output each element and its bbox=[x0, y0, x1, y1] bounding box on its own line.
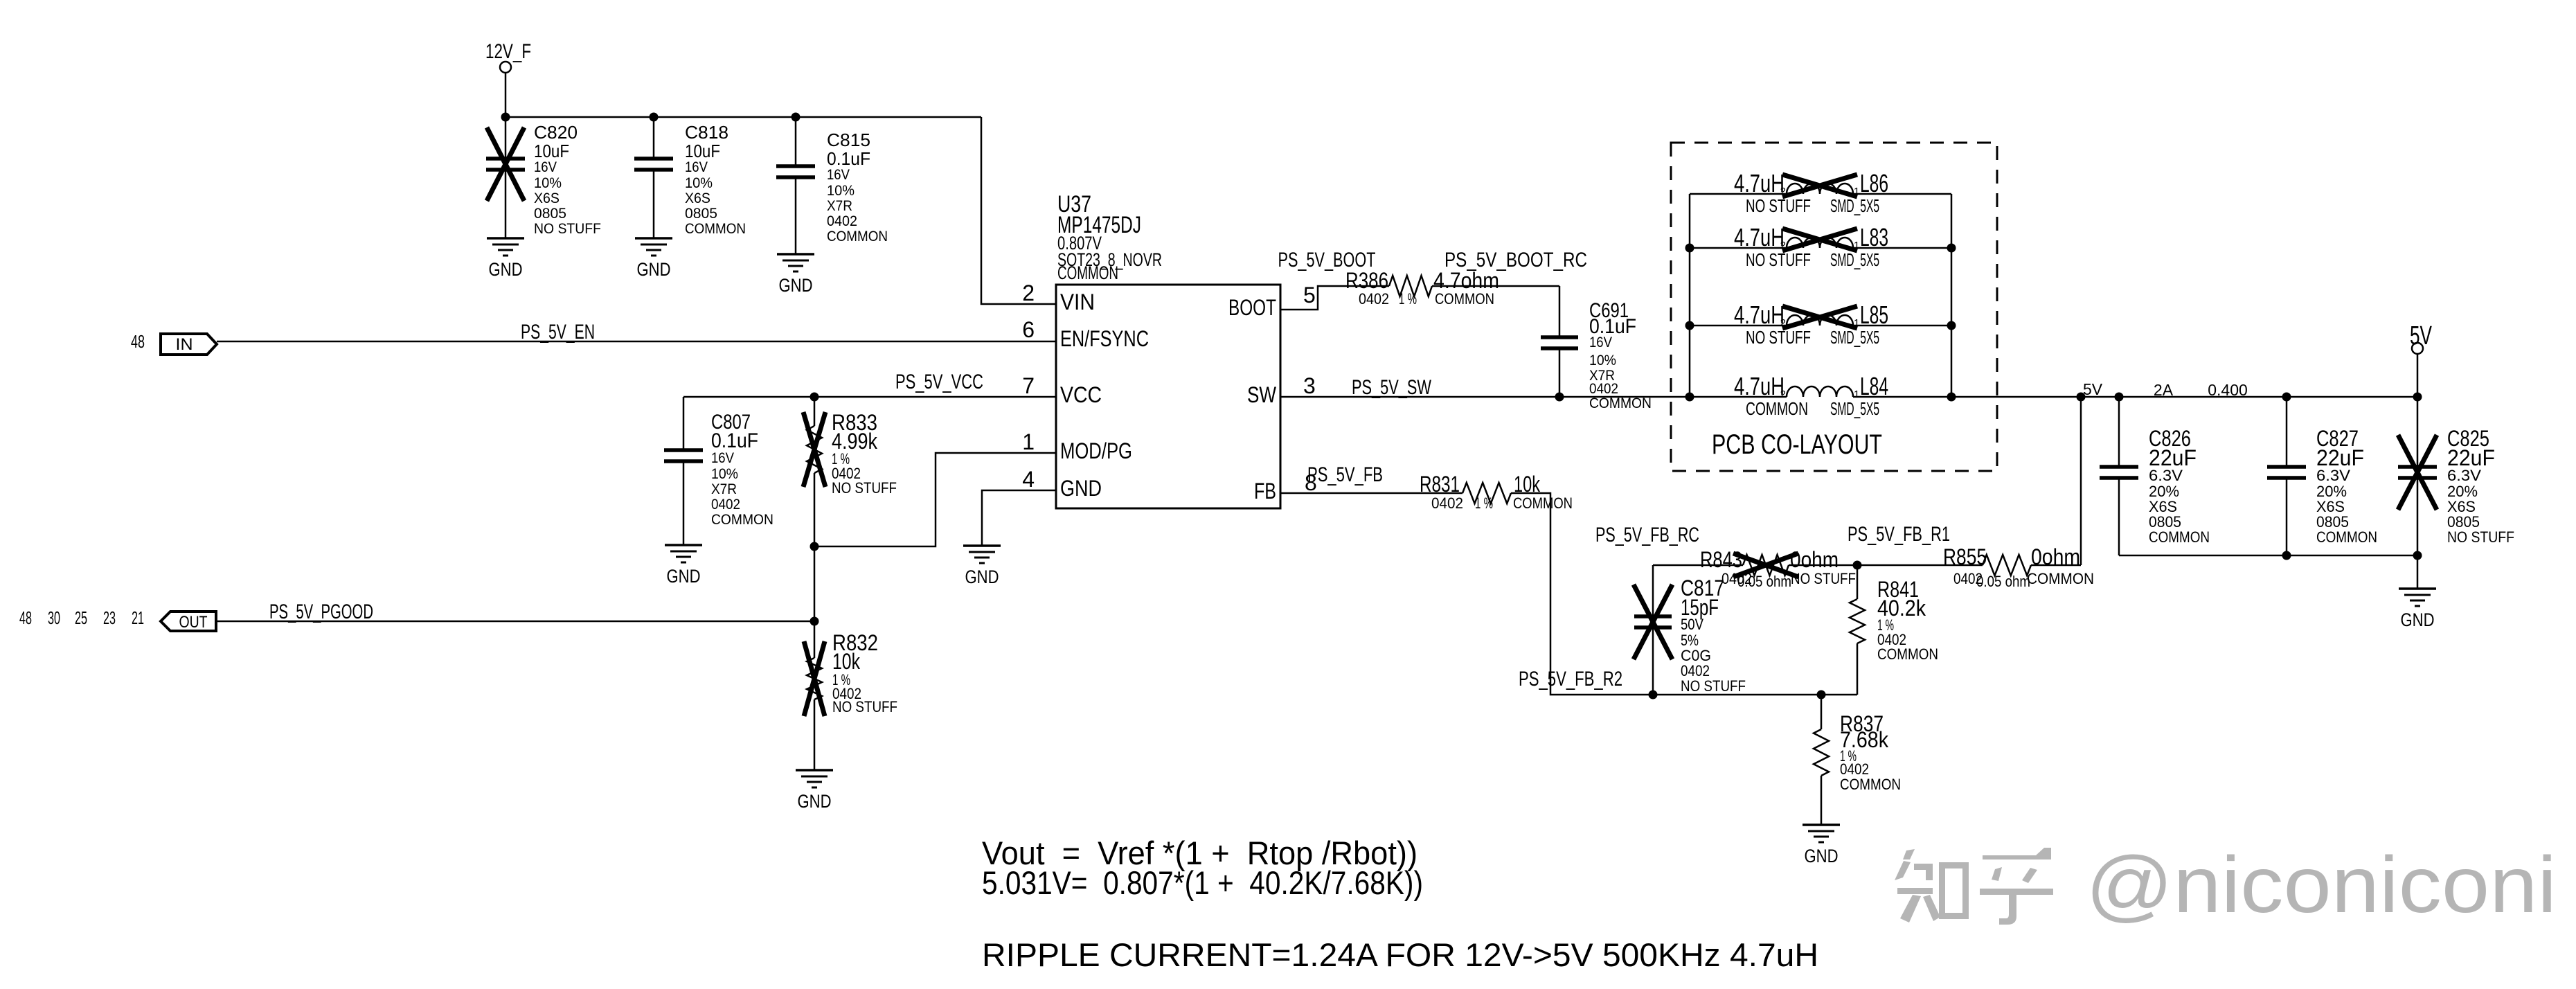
svg-text:X7R: X7R bbox=[711, 481, 737, 497]
svg-text:16V: 16V bbox=[685, 159, 708, 175]
svg-text:FB: FB bbox=[1254, 479, 1276, 504]
svg-text:GND: GND bbox=[2401, 609, 2435, 630]
pin 1 MOD/PG bbox=[1022, 429, 1132, 463]
svg-text:2A: 2A bbox=[2154, 381, 2174, 399]
svg-text:NO STUFF: NO STUFF bbox=[534, 221, 601, 237]
svg-text:6: 6 bbox=[1022, 317, 1035, 342]
inductor L83 4.7uH (NO STUFF) bbox=[1690, 223, 1951, 270]
ground bbox=[1803, 825, 1840, 866]
svg-text:0402: 0402 bbox=[1431, 494, 1463, 512]
pin 8 FB bbox=[1254, 470, 1317, 504]
resistor R837 7.68k bbox=[1814, 695, 1901, 825]
net 12V_F power terminal bbox=[485, 40, 531, 117]
svg-text:COMMON: COMMON bbox=[1435, 290, 1494, 308]
svg-text:3: 3 bbox=[1303, 373, 1316, 398]
svg-text:X6S: X6S bbox=[534, 190, 560, 206]
svg-text:10uF: 10uF bbox=[534, 141, 569, 161]
node junction R833 bottom bbox=[810, 542, 819, 551]
capacitor C820 10uF (NO STUFF) bbox=[486, 117, 601, 238]
port IN (pin 48) PS_5V_EN bbox=[131, 331, 217, 355]
wire riser to R855 bbox=[2080, 397, 2082, 565]
svg-text:6.3V: 6.3V bbox=[2149, 467, 2183, 484]
capacitor C817 15pF (NO STUFF) bbox=[1634, 565, 1746, 695]
inductor L85 4.7uH (NO STUFF) bbox=[1690, 301, 1951, 348]
pin 5 BOOT bbox=[1228, 283, 1316, 320]
wire PS_5V_VCC bbox=[683, 396, 1056, 398]
wire rail to VIN bbox=[981, 117, 1056, 304]
svg-text:L85: L85 bbox=[1860, 301, 1888, 329]
wire FB_R1 node bbox=[1789, 564, 1983, 567]
svg-text:GND: GND bbox=[1060, 476, 1102, 501]
svg-text:7: 7 bbox=[1022, 373, 1035, 398]
svg-text:10%: 10% bbox=[1589, 353, 1616, 368]
wire FB_R2 row right bbox=[1653, 694, 1857, 696]
svg-text:10%: 10% bbox=[534, 175, 562, 191]
svg-text:VIN: VIN bbox=[1060, 289, 1095, 314]
svg-text:COMMON: COMMON bbox=[1877, 645, 1938, 663]
wire PS_5V_PGOOD bbox=[216, 621, 814, 623]
svg-text:COMMON: COMMON bbox=[2027, 570, 2094, 587]
port OUT pins 48 30 25 23 21 PS_5V_PGOOD bbox=[19, 607, 216, 632]
svg-text:10%: 10% bbox=[711, 466, 738, 482]
node junctions right rail bbox=[1947, 244, 1956, 253]
svg-text:R843: R843 bbox=[1700, 547, 1742, 572]
svg-text:5: 5 bbox=[1303, 283, 1316, 308]
svg-text:10%: 10% bbox=[827, 183, 855, 199]
svg-text:L86: L86 bbox=[1860, 169, 1888, 197]
svg-text:SMD_5X5: SMD_5X5 bbox=[1830, 398, 1879, 419]
node junction FB_R1 bbox=[1853, 561, 1862, 570]
svg-text:L83: L83 bbox=[1860, 223, 1888, 251]
ground bbox=[665, 545, 702, 587]
wire top input rail bbox=[506, 116, 981, 118]
wire inductor right rail bbox=[1951, 194, 1953, 397]
node junction C827 bbox=[2282, 393, 2291, 402]
resistor R841 40.2k bbox=[1850, 565, 1938, 695]
svg-text:PS_5V_FB: PS_5V_FB bbox=[1307, 463, 1383, 486]
node junction C827 gnd bbox=[2282, 551, 2291, 560]
svg-text:L84: L84 bbox=[1860, 372, 1888, 400]
svg-text:COMMON: COMMON bbox=[827, 229, 888, 244]
svg-text:C820: C820 bbox=[534, 122, 578, 143]
wire PS_5V_SW bbox=[1280, 396, 1690, 398]
capacitor C691 0.1uF bbox=[1541, 286, 1652, 411]
svg-text:VCC: VCC bbox=[1060, 382, 1102, 407]
svg-text:30: 30 bbox=[48, 607, 60, 628]
svg-text:48: 48 bbox=[131, 331, 145, 352]
svg-text:GND: GND bbox=[798, 791, 832, 812]
svg-text:6.3V: 6.3V bbox=[2316, 467, 2350, 484]
svg-text:0.05 ohm: 0.05 ohm bbox=[1976, 573, 2030, 590]
node junction C820 bbox=[501, 113, 510, 122]
svg-text:NO STUFF: NO STUFF bbox=[2447, 528, 2514, 546]
svg-text:0402: 0402 bbox=[827, 213, 857, 229]
svg-text:COMMON: COMMON bbox=[1746, 398, 1808, 419]
watermark zhihu @niconiconi bbox=[1895, 848, 2053, 925]
svg-text:SMD_5X5: SMD_5X5 bbox=[1830, 327, 1879, 348]
svg-text:PS_5V_FB_RC: PS_5V_FB_RC bbox=[1595, 524, 1699, 546]
wire R831 to FB_R2 row bbox=[1511, 493, 1653, 695]
pin 2 VIN bbox=[1022, 280, 1095, 314]
ground bbox=[2399, 589, 2436, 630]
wire R833 node down to R832 bbox=[814, 546, 816, 658]
resistor R855 0ohm bbox=[1943, 544, 2094, 590]
svg-text:PS_5V_FB_R2: PS_5V_FB_R2 bbox=[1519, 668, 1622, 690]
svg-text:2: 2 bbox=[1022, 280, 1035, 305]
capacitor C807 0.1uF bbox=[664, 397, 773, 545]
svg-text:10%: 10% bbox=[685, 175, 713, 191]
svg-text:16V: 16V bbox=[534, 159, 557, 175]
svg-text:IN: IN bbox=[176, 335, 193, 354]
pin 3 SW bbox=[1247, 373, 1316, 407]
svg-text:16V: 16V bbox=[711, 450, 734, 466]
svg-text:COMMON: COMMON bbox=[711, 512, 773, 528]
svg-text:23: 23 bbox=[103, 607, 116, 628]
capacitor C825 22uF (NO STUFF) bbox=[2398, 397, 2514, 555]
svg-text:16V: 16V bbox=[1589, 335, 1612, 350]
net 5V power terminal bbox=[2410, 321, 2432, 397]
svg-text:4.7uH: 4.7uH bbox=[1734, 223, 1785, 251]
svg-text:0.400: 0.400 bbox=[2208, 381, 2248, 399]
svg-text:@niconiconi: @niconiconi bbox=[2086, 841, 2557, 929]
wire MOD/PG to R833 node bbox=[814, 453, 1055, 546]
PCB CO-LAYOUT dashed group box bbox=[1671, 143, 1997, 471]
svg-text:1 %: 1 % bbox=[1475, 494, 1493, 512]
svg-text:NO STUFF: NO STUFF bbox=[1746, 327, 1811, 348]
svg-text:5V: 5V bbox=[2083, 380, 2103, 398]
wire 5V output rail bbox=[1951, 396, 2417, 398]
pin 6 EN/FSYNC bbox=[1022, 317, 1149, 351]
svg-text:X6S: X6S bbox=[685, 190, 710, 206]
pin 7 VCC bbox=[1022, 373, 1102, 407]
wire to gnd bbox=[2417, 555, 2419, 589]
node junction C815 bbox=[791, 113, 800, 122]
svg-text:PS_5V_VCC: PS_5V_VCC bbox=[895, 371, 983, 393]
svg-text:COMMON: COMMON bbox=[1057, 262, 1118, 283]
svg-text:0ohm: 0ohm bbox=[1790, 547, 1839, 572]
svg-text:GND: GND bbox=[1805, 846, 1839, 866]
svg-text:0805: 0805 bbox=[534, 206, 566, 222]
svg-text:6.3V: 6.3V bbox=[2447, 467, 2481, 484]
svg-text:48: 48 bbox=[19, 607, 32, 628]
node junction C817/FB_R2 bbox=[1649, 690, 1658, 700]
svg-text:5.031V= 0.807*(1 + 40.2K/7.6: 5.031V= 0.807*(1 + 40.2K/7.68K)) bbox=[982, 864, 1423, 901]
wire GND pin 4 bbox=[982, 490, 1055, 546]
svg-text:4.7uH: 4.7uH bbox=[1734, 301, 1785, 329]
capacitor C818 10uF bbox=[634, 117, 746, 238]
svg-text:4.7ohm: 4.7ohm bbox=[1433, 268, 1499, 293]
node junctions left rail bbox=[1685, 244, 1694, 253]
ground bbox=[635, 238, 672, 280]
svg-text:SW: SW bbox=[1247, 382, 1277, 407]
svg-text:0.1uF: 0.1uF bbox=[827, 148, 870, 169]
svg-text:OUT: OUT bbox=[179, 613, 208, 632]
capacitor C826 22uF bbox=[2100, 397, 2210, 555]
svg-text:COMMON: COMMON bbox=[1513, 494, 1573, 512]
pin 4 GND bbox=[1022, 467, 1102, 501]
svg-text:10uF: 10uF bbox=[685, 141, 720, 161]
svg-text:SMD_5X5: SMD_5X5 bbox=[1830, 195, 1879, 216]
svg-text:0805: 0805 bbox=[685, 206, 717, 222]
capacitor C815 0.1uF bbox=[776, 117, 888, 254]
svg-text:GND: GND bbox=[637, 259, 671, 280]
wire inductor left rail bbox=[1689, 194, 1691, 397]
svg-text:10k: 10k bbox=[832, 649, 861, 674]
svg-text:4.7uH: 4.7uH bbox=[1734, 372, 1785, 400]
node junction R855 riser bbox=[2077, 393, 2086, 402]
svg-text:COMMON: COMMON bbox=[685, 221, 746, 237]
svg-text:GND: GND bbox=[489, 259, 523, 280]
resistor R832 10k (NO STUFF) bbox=[804, 630, 897, 770]
ground bbox=[777, 254, 814, 296]
svg-text:PS_5V_FB_R1: PS_5V_FB_R1 bbox=[1848, 523, 1950, 546]
svg-text:EN/FSYNC: EN/FSYNC bbox=[1060, 326, 1149, 351]
resistor R831 10k bbox=[1420, 472, 1573, 512]
node junction VCC/R833 bbox=[810, 393, 819, 402]
wire PS_5V_FB_RC bbox=[1653, 564, 1743, 567]
svg-text:RIPPLE CURRENT=1.24A FOR 12V->: RIPPLE CURRENT=1.24A FOR 12V->5V 500KHz … bbox=[982, 936, 1818, 973]
svg-text:0.05 ohm: 0.05 ohm bbox=[1737, 573, 1791, 590]
wire PS_5V_FB bbox=[1280, 492, 1463, 494]
node junction PGOOD/R832 bbox=[810, 617, 819, 626]
wire PS_5V_EN bbox=[217, 341, 1056, 343]
svg-text:COMMON: COMMON bbox=[2149, 528, 2210, 546]
svg-text:NO STUFF: NO STUFF bbox=[1681, 677, 1746, 695]
svg-text:C818: C818 bbox=[685, 122, 728, 143]
node junction C826 bbox=[2115, 393, 2124, 402]
svg-text:GND: GND bbox=[779, 275, 813, 296]
ground bbox=[796, 770, 833, 812]
svg-text:PS_5V_SW: PS_5V_SW bbox=[1352, 376, 1431, 399]
svg-text:21: 21 bbox=[132, 607, 144, 628]
inductor L84 4.7uH bbox=[1690, 372, 1951, 419]
svg-text:25: 25 bbox=[75, 607, 87, 628]
svg-text:PS_5V_PGOOD: PS_5V_PGOOD bbox=[269, 600, 373, 623]
svg-text:0402: 0402 bbox=[711, 497, 740, 513]
svg-text:COMMON: COMMON bbox=[1840, 776, 1901, 793]
wire output cap ground rail bbox=[2119, 555, 2417, 557]
node junction C691/SW bbox=[1555, 393, 1564, 402]
svg-text:NO STUFF: NO STUFF bbox=[832, 698, 897, 715]
svg-text:1: 1 bbox=[1022, 429, 1035, 454]
svg-text:MOD/PG: MOD/PG bbox=[1060, 438, 1132, 463]
svg-text:NO STUFF: NO STUFF bbox=[1746, 249, 1811, 270]
svg-text:16V: 16V bbox=[827, 167, 850, 183]
svg-text:NO STUFF: NO STUFF bbox=[832, 479, 897, 497]
ground bbox=[487, 238, 524, 280]
wire PS_5V_BOOT bbox=[1280, 286, 1389, 310]
svg-text:4: 4 bbox=[1022, 467, 1035, 492]
svg-text:0402: 0402 bbox=[1589, 381, 1618, 397]
svg-text:C815: C815 bbox=[827, 130, 870, 150]
svg-text:BOOT: BOOT bbox=[1228, 295, 1276, 320]
node junction 5V terminal bbox=[2413, 393, 2422, 402]
wire PS_5V_BOOT_RC bbox=[1432, 285, 1559, 287]
svg-text:COMMON: COMMON bbox=[2316, 528, 2377, 546]
wire R855 to 5V bbox=[2031, 564, 2081, 567]
svg-text:12V_F: 12V_F bbox=[485, 40, 531, 63]
svg-text:1 %: 1 % bbox=[1399, 290, 1417, 308]
svg-text:NO STUFF: NO STUFF bbox=[1791, 570, 1856, 587]
svg-text:5V: 5V bbox=[2410, 321, 2432, 350]
node junction R837 bbox=[1817, 690, 1826, 700]
op-amp U37 MP1475DJ buck regulator bbox=[1056, 191, 1280, 508]
node junction C825 gnd bbox=[2413, 551, 2422, 560]
svg-text:PS_5V_EN: PS_5V_EN bbox=[521, 321, 595, 344]
resistor R843 0ohm (NO STUFF) bbox=[1700, 547, 1856, 590]
node junction C818 bbox=[650, 113, 659, 122]
svg-text:4.7uH: 4.7uH bbox=[1734, 169, 1785, 197]
svg-text:50V: 50V bbox=[1681, 616, 1703, 633]
svg-text:0402: 0402 bbox=[1359, 290, 1389, 308]
svg-text:NO STUFF: NO STUFF bbox=[1746, 195, 1811, 216]
svg-text:COMMON: COMMON bbox=[1589, 395, 1652, 411]
svg-text:X7R: X7R bbox=[827, 198, 852, 214]
ground bbox=[963, 546, 1001, 587]
resistor R386 4.7ohm bbox=[1345, 268, 1499, 308]
capacitor C827 22uF bbox=[2267, 397, 2377, 555]
svg-text:PS_5V_BOOT_RC: PS_5V_BOOT_RC bbox=[1444, 249, 1587, 271]
svg-text:0.1uF: 0.1uF bbox=[711, 429, 758, 452]
inductor L86 4.7uH (NO STUFF) bbox=[1690, 169, 1951, 216]
svg-text:SMD_5X5: SMD_5X5 bbox=[1830, 249, 1879, 270]
svg-text:R855: R855 bbox=[1943, 544, 1987, 569]
svg-text:R386: R386 bbox=[1345, 268, 1388, 293]
svg-text:GND: GND bbox=[667, 566, 701, 587]
svg-text:R831: R831 bbox=[1420, 472, 1460, 497]
svg-text:PCB CO-LAYOUT: PCB CO-LAYOUT bbox=[1712, 429, 1882, 460]
svg-text:GND: GND bbox=[965, 567, 999, 587]
resistor R833 4.99k (NO STUFF) bbox=[803, 397, 897, 546]
